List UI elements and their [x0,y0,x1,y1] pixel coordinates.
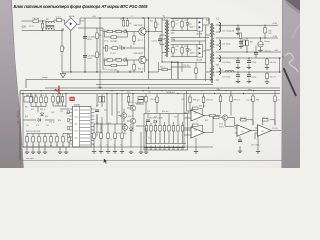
red annotation streak [58,86,60,95]
node: C1 junctions [42,20,43,31]
resistor R33 [40,97,42,103]
resistor R64 [202,97,204,103]
ground [149,146,153,150]
op-amp U2B LM339 [191,127,204,138]
transistor Q2 KSE13007 [139,56,146,63]
ground [236,65,240,69]
capacitor C22 [95,110,99,112]
wire: long mid buses [20,72,280,161]
resistor R8 [111,64,117,66]
label: extra smudges mid-bottom [51,92,151,136]
resistor R3 [116,30,122,32]
photo background right strip [282,0,301,168]
resistor R62 [168,126,170,132]
resistor R55c [127,97,129,103]
paper background [0,0,300,168]
resistor R2 [107,59,113,61]
transistor Q3 [130,105,135,110]
resistor R71 feedback [241,119,247,121]
ground [113,150,117,154]
pin component squares on left pins [67,111,69,138]
resistor R49a [99,97,101,103]
dark smudge top right corner [286,0,300,11]
capacitor C17 [236,61,240,63]
wire: D20 leads [130,124,132,147]
wire: Q3 Q4 [127,94,144,133]
ground [43,150,47,154]
wire: R19 leads [159,62,172,79]
wire: T2 primary leads [206,18,210,72]
ground [239,45,243,49]
diode D6 [186,49,189,52]
wire: inter-cluster lines [171,31,209,45]
photo vignette overlay [0,0,300,168]
wire: R29 leads [127,18,129,27]
ground [58,150,62,154]
label: top bus marks [92,16,133,21]
wire: gnd stubs Q34 [141,128,146,150]
capacitor C14 [195,68,197,74]
red annotation squiggle [55,89,59,91]
ground [106,150,110,154]
ground [236,79,240,83]
resistor R62c [177,126,179,132]
resistor R55 [138,100,144,102]
ground [258,48,262,52]
wire: R12 leads [149,18,163,32]
ground [256,150,260,154]
bridge rectifier VD1 [65,15,77,31]
capacitor C9 [105,46,107,52]
ground [158,146,162,150]
ground [120,150,124,154]
ground [194,150,198,154]
resistor R56 [138,97,144,99]
ground [37,150,41,154]
resistor R50 [93,133,95,139]
capacitor C16 [181,48,183,54]
wire: R55c stubs [129,94,134,106]
inductor L2 series choke [225,71,234,73]
wire: sub-box internals [146,114,187,144]
wire: lower secondary bus [171,63,206,80]
wire: Q collector drop lines [145,18,162,79]
wire: AC input lines [22,20,65,31]
label: value annotations output rails [221,62,276,79]
resistor R32 [35,97,37,103]
resistor R58 [150,126,152,132]
resistor R9 [133,36,135,42]
ground [238,149,242,153]
ground [162,146,166,150]
transformer T2 [206,18,214,83]
diode D1 [124,30,127,33]
transistor Q4 [130,118,135,123]
ground [247,65,251,69]
ground [31,150,35,154]
resistor R31 [30,97,32,103]
resistor R36 [32,137,34,143]
label: left column value rows [26,95,122,147]
wire: row collector line [94,124,126,147]
ground [129,150,133,154]
resistor R51 [100,133,102,139]
resistor R29 [126,21,128,27]
wire: R56b stubs [145,94,147,114]
capacitor C5 electrolytic [83,37,87,39]
wire: bridge DC output to bus [71,17,209,73]
ground [144,150,148,154]
resistor R6 bleeder [96,52,98,58]
fuse FU1 [33,20,39,23]
label: value annotations driver stages [104,21,159,71]
ground [25,150,29,154]
wire: T1 winding taps [162,20,174,53]
resistor R31 [246,40,248,46]
resistor R26 [239,33,241,39]
label: value annotations cluster top-left [29,19,103,61]
resistor R40a [62,137,64,143]
diode D2 [124,58,127,61]
ground [236,31,240,35]
resistor R63 [189,97,191,103]
connector XP2 [258,42,263,47]
resistor R18 [172,48,174,54]
diode D3 [122,46,125,49]
resistor R4 [116,59,122,61]
op-amp U3B LM339 [258,125,272,137]
resistor R7 [111,36,117,38]
resistor R24 [266,73,268,79]
inductor L5 common-mode choke [46,21,54,30]
wire: cap bank verticals [62,18,103,72]
wire: lower rectifier cluster rails [171,45,206,57]
transistor Q6 [121,113,126,118]
capacitor C13 [158,39,162,41]
wire: extra output links [255,46,257,59]
ground [153,146,157,150]
resistor R62b [172,126,174,132]
ground [99,150,103,154]
diode D16 [40,113,43,116]
resistor R70 [214,116,220,118]
photo background left strip [0,0,23,168]
light cable squiggle on desk [285,53,298,72]
resistor R19 [162,68,168,70]
resistor R59 [154,126,156,132]
resistor R61 [163,126,165,132]
resistor R69 [252,96,254,102]
wire: right section verticals [214,91,275,127]
wire: output rails [221,25,282,80]
dark pen object on desk [284,68,297,96]
capacitor C20 electrolytic [239,42,243,44]
wire: ground stubs under IC row [94,147,122,150]
ground [265,66,269,70]
capacitor C6 electrolytic [83,56,87,58]
ground [247,79,251,83]
label: right section values [181,99,279,147]
capacitor C19 electrolytic [236,28,240,30]
resistor R39 [50,137,52,143]
inductor L7 output choke [216,19,221,81]
wire: stage2 connections [100,18,145,88]
wire: stage1 network loop [103,28,139,70]
ground [265,80,269,84]
wire: left control column [23,94,70,151]
wire: R57a-R59a stubs [53,94,66,107]
wire: T2 to choke stubs [216,25,221,80]
resistor R54 [121,133,123,139]
op-amp U3A LM339 [237,125,251,137]
resistor R30 [264,28,266,34]
junction dots output area [99,17,280,72]
ground [139,150,143,154]
resistor R49b [102,97,104,103]
wire: around IC [23,94,213,148]
resistor R72 feedback [263,119,269,121]
transistor Q1 KSE13007 [139,28,146,35]
label: value annotations bottom left [25,103,123,141]
capacitor C34 [156,97,158,103]
resistor R57a [52,97,54,103]
wire: comparators outputs [235,128,282,150]
resistor R34 [45,97,47,103]
resistor R12 [155,22,157,28]
resistor R57 [145,126,147,132]
capacitor C19b [236,75,240,77]
resistor R67 [219,96,221,102]
wire: misc bottom verticals [60,147,66,150]
ground [167,146,171,150]
sub-box lower center [144,114,188,151]
dual diode VD4 [197,45,203,58]
label: value annotations secondary mid [172,20,203,67]
transformer T1 [162,17,174,58]
wire: under T1 [149,62,179,79]
wire: R28 leads [123,18,125,27]
schematic bottom border [22,160,282,162]
capacitor C15 [181,22,183,28]
resistor R25 [243,40,245,46]
resistor R40 [56,137,58,143]
mouse cursor [104,158,108,164]
resistor R5 bleeder [96,33,98,39]
resistor R62d [181,126,183,132]
diode D18 [154,120,157,123]
wire: Q7 leads [124,123,126,134]
dual diode VD3 [197,19,203,32]
op-amp U2A LM339 [191,110,204,121]
resistor R58a [57,97,59,103]
diode D20 [129,128,132,131]
ground [171,146,175,150]
resistor R59a [61,97,63,103]
red annotation box [70,97,75,101]
capacitor C2 [56,17,62,22]
ground [180,146,184,150]
resistor R40b [68,137,70,143]
resistor R37 [38,137,40,143]
paper right edge shadow [281,0,284,168]
capacitor C25 [146,120,150,122]
node: bus junction dots [22,71,254,94]
diode D15 [38,118,41,121]
capacitor C37 [238,140,242,142]
resistor R53 [114,133,116,139]
IC U1 TL494 [67,105,94,147]
label: value annotations bottom mid [128,97,198,140]
resistor R56b [145,97,147,103]
wire: interstage [103,45,145,50]
resistor R68 [230,96,232,102]
box: CB test sub-box [24,97,33,103]
capacitor C28 [254,53,258,55]
resistor R66 [210,114,216,116]
resistor R11 [112,47,118,49]
capacitor C18 [247,61,251,63]
wire: C13 leads [160,35,165,45]
resistor R60 [159,126,161,132]
resistor R35 [26,137,28,143]
capacitor C20b [247,75,251,77]
diode D5 [186,23,189,26]
resistor R52 [107,133,109,139]
wire: C34 leads [156,94,158,114]
thermistor TR1 [61,46,63,52]
wire: stage2 network loop [103,60,139,66]
resistor R69b [274,96,276,102]
resistor R10 [133,65,135,71]
ground [144,146,148,150]
capacitor C1 [41,23,43,28]
resistor R17 [172,22,174,28]
wire: stage1 connections [134,18,145,45]
resistor R65b feedback [193,124,199,126]
transistor Q5 KT315 [222,115,227,120]
resistor R38 [44,137,46,143]
paper left edge shadow [11,0,23,168]
wire: upper rectifier cluster rails [171,19,209,82]
ground [176,146,180,150]
ground [92,150,96,154]
ground [64,150,68,154]
resistor R1 [107,30,113,32]
resistor R65 feedback [193,107,199,109]
wire: Q6 leads [118,109,124,122]
ground chassis [60,72,65,78]
resistor R28 [122,21,124,27]
resistor R23 [266,59,268,65]
wire: C14 link [196,18,209,79]
wire: extra left row stubs [63,134,69,148]
transistor Q7 [122,125,127,130]
wire: opamp section verticals [184,91,221,150]
